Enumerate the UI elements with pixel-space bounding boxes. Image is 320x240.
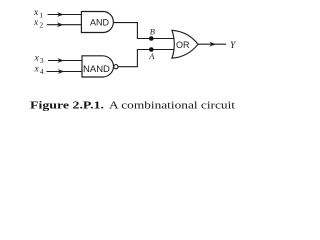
svg-text:x: x xyxy=(33,18,39,28)
wire AND output to OR input via node B xyxy=(113,23,175,39)
NAND inversion bubble xyxy=(114,65,118,69)
svg-text:4: 4 xyxy=(40,67,44,76)
arrowhead on x4 wire xyxy=(58,69,65,74)
arrowhead on x2 wire xyxy=(57,22,64,27)
wire x1 to AND xyxy=(48,14,83,16)
svg-text:2: 2 xyxy=(39,20,43,29)
svg-text:A combinational circuit: A combinational circuit xyxy=(109,101,235,112)
NAND gate U2 xyxy=(82,56,114,77)
wire OR output to Y xyxy=(198,43,226,45)
wire x4 to NAND xyxy=(47,71,83,73)
svg-text:1: 1 xyxy=(39,10,43,19)
svg-text:A: A xyxy=(148,51,155,61)
AND gate U1 xyxy=(81,12,113,33)
svg-text:OR: OR xyxy=(176,40,190,50)
wire x3 to NAND xyxy=(48,60,83,62)
svg-text:x: x xyxy=(34,64,40,74)
svg-text:x: x xyxy=(34,53,40,63)
wire x2 to AND xyxy=(47,24,82,26)
node A junction dot xyxy=(149,47,154,52)
arrowhead on x3 wire xyxy=(57,58,64,63)
wire NAND output to OR input via node A xyxy=(118,50,176,67)
svg-text:B: B xyxy=(150,26,155,36)
svg-text:x: x xyxy=(33,8,39,18)
svg-text:Figure 2.P.1.: Figure 2.P.1. xyxy=(30,101,105,112)
arrowhead on Y output wire xyxy=(209,42,216,47)
OR gate U3 xyxy=(172,30,198,58)
arrowhead on x1 wire xyxy=(57,12,64,17)
node B junction dot xyxy=(149,36,154,41)
svg-text:AND: AND xyxy=(90,17,110,27)
svg-text:NAND: NAND xyxy=(83,64,110,75)
svg-text:3: 3 xyxy=(40,56,44,65)
